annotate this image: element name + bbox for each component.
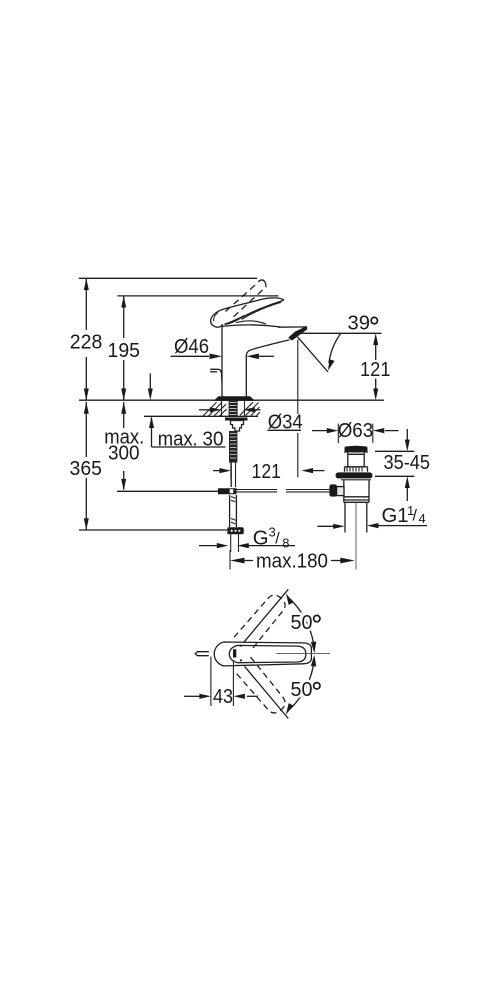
plan dashed capsule lower bbox=[234, 657, 289, 717]
faucet body right edge and spout underside bbox=[246, 340, 289, 399]
waste centerline bbox=[355, 503, 357, 570]
waste flare ring bbox=[345, 467, 368, 472]
dashed raised lever line B bbox=[234, 287, 266, 317]
horizontal actuating rod right segment (after break) bbox=[286, 490, 330, 492]
plan 50deg arc lower bbox=[290, 660, 315, 710]
bottom ref line (365) bbox=[79, 529, 227, 531]
ref line top of lever at rest (195) bbox=[117, 295, 278, 297]
svg-text:G1: G1 bbox=[382, 505, 409, 527]
dimension Ø63 ext ticks bbox=[338, 424, 373, 444]
dimension 43 ext lines bbox=[211, 657, 234, 707]
svg-text:195: 195 bbox=[108, 340, 141, 362]
svg-text:50: 50 bbox=[291, 679, 313, 701]
lever underside thick edge bbox=[225, 300, 284, 324]
thin supply pipe bbox=[230, 463, 232, 488]
svg-text:39: 39 bbox=[348, 312, 371, 334]
dimension 35-45 ref lines bbox=[375, 451, 414, 476]
lever front hook inner stroke bbox=[214, 313, 218, 322]
countertop hole edges bbox=[222, 401, 245, 416]
dimension G3/8 arrows bbox=[199, 545, 219, 547]
lever front hook bbox=[211, 311, 223, 328]
hose tail below nut bbox=[231, 534, 239, 552]
svg-text:4: 4 bbox=[419, 511, 426, 526]
svg-text:121: 121 bbox=[360, 359, 391, 381]
pull rod knob at back bbox=[210, 369, 222, 382]
lever neck dark section bbox=[225, 315, 245, 324]
ref line top of raised lever (228) bbox=[79, 277, 257, 279]
faucet body left edge bbox=[221, 325, 223, 400]
39deg arc arrow bbox=[329, 333, 341, 363]
dimension 35-45 arrows bbox=[406, 429, 408, 441]
cartridge dome arc bbox=[236, 321, 266, 324]
dimension max.180 ext lines bbox=[229, 550, 231, 570]
plan radius line upper bbox=[244, 589, 288, 642]
countertop top line bbox=[79, 399, 384, 401]
dimension max.30 upper arrow bbox=[149, 374, 151, 391]
threaded shank through counter bbox=[229, 401, 238, 416]
dashed raised lever tip arc bbox=[258, 280, 266, 287]
waste barrel bbox=[344, 481, 369, 503]
plan dashed capsule upper bbox=[234, 591, 289, 651]
body shoulder band bbox=[222, 325, 281, 327]
dimension max.30 lower arrow and shelf bbox=[152, 418, 226, 448]
svg-text:max.180: max.180 bbox=[256, 551, 328, 573]
dimension max.300 vertical line bbox=[123, 402, 125, 490]
threaded shank lower bbox=[229, 431, 237, 463]
svg-text:300: 300 bbox=[108, 443, 140, 465]
ref line bottom of supply (max.300) bbox=[117, 490, 218, 492]
lever inner line bbox=[242, 302, 282, 319]
waste black flange bbox=[336, 472, 373, 478]
plan radius line lower bbox=[245, 666, 289, 718]
waste plug cap bbox=[344, 446, 367, 452]
horseshoe washer under counter bbox=[225, 418, 248, 421]
svg-text:Ø63: Ø63 bbox=[338, 420, 374, 442]
waste tailpipe bbox=[345, 502, 367, 532]
dimension Ø46 arrows bbox=[171, 355, 209, 357]
plan centerline bbox=[277, 653, 331, 655]
svg-text:228: 228 bbox=[70, 332, 103, 354]
svg-text:Ø46: Ø46 bbox=[174, 336, 209, 358]
waste neck bbox=[348, 454, 364, 467]
svg-text:365: 365 bbox=[70, 458, 103, 480]
svg-text:50: 50 bbox=[291, 612, 313, 634]
plan inner capsule bbox=[229, 645, 306, 662]
svg-text:/: / bbox=[275, 531, 280, 548]
svg-text:35-45: 35-45 bbox=[384, 452, 431, 474]
svg-text:8: 8 bbox=[282, 535, 289, 550]
plan rod knob bbox=[195, 652, 209, 656]
plan 50deg arc upper bbox=[290, 599, 315, 649]
dimension 121 (horizontal) ext line left bbox=[230, 459, 232, 479]
dimension Ø34 arrows bbox=[199, 409, 213, 411]
spout tip aerator dark wedge bbox=[288, 326, 307, 341]
svg-text:max.: max. bbox=[158, 429, 198, 451]
waste side port block bbox=[337, 487, 344, 496]
dimension 43 arrows bbox=[184, 695, 200, 697]
dimension 365 vertical line bbox=[85, 402, 87, 530]
washer line under flange bbox=[341, 479, 371, 481]
horizontal actuating rod left segment bbox=[237, 490, 278, 492]
dimension 228 vertical line bbox=[85, 278, 87, 400]
svg-text:G: G bbox=[253, 528, 269, 550]
dimension 121 (vertical) line bbox=[375, 338, 377, 395]
faucet base plate bbox=[214, 396, 256, 401]
waste rod knob bbox=[329, 484, 337, 496]
lever handle solid top edge bbox=[219, 298, 283, 311]
G3/8 nut bbox=[227, 527, 243, 534]
dimension G1 1/4 arrows bbox=[318, 525, 335, 527]
countertop bottom line (max.30) bbox=[144, 415, 258, 417]
countertop hatch left bbox=[203, 402, 260, 416]
svg-text:/: / bbox=[413, 508, 418, 525]
spout outlet drop extension line bbox=[297, 340, 299, 478]
dimension max.180 arrows bbox=[230, 558, 245, 564]
plan pivot mark bbox=[233, 649, 236, 657]
mounting nut bbox=[231, 421, 244, 432]
plan dots bbox=[240, 645, 242, 647]
flexible hose bbox=[229, 495, 231, 527]
spout top edge bbox=[278, 326, 307, 328]
svg-text:121: 121 bbox=[252, 461, 282, 483]
waste plug lip bbox=[344, 452, 368, 455]
pull rod cross fitting bbox=[218, 488, 237, 494]
plan outer capsule bbox=[214, 642, 311, 666]
water stream line at 39deg bbox=[298, 337, 329, 372]
dimension 121 (horizontal) arrows bbox=[213, 470, 223, 472]
svg-text:30: 30 bbox=[203, 429, 224, 451]
39 degree horizontal ref line bbox=[302, 332, 382, 334]
dimension 195 vertical line bbox=[123, 296, 125, 400]
dashed raised lever line A bbox=[226, 282, 259, 312]
dimension Ø63 arrows bbox=[312, 430, 327, 432]
svg-text:43: 43 bbox=[213, 686, 233, 708]
